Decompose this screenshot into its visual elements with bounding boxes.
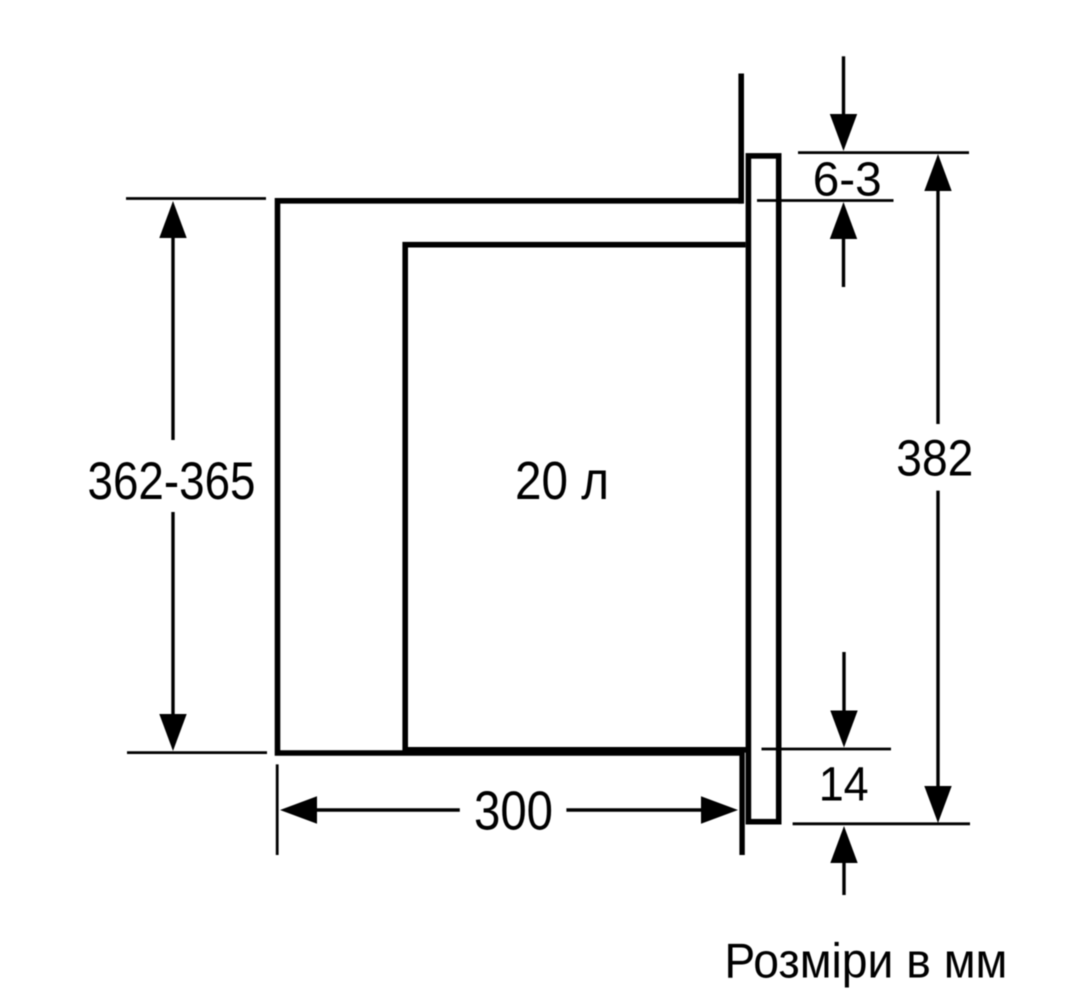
- oven cavity outline (20 l): [405, 245, 746, 750]
- dimension label 14: [819, 757, 869, 811]
- cavity volume label 20 l: [515, 451, 609, 511]
- dimension 382: bottom arrow: [924, 491, 951, 823]
- dimension 300: right arrow: [566, 796, 738, 823]
- dimension 362-365: upper arrow: [159, 201, 186, 440]
- dimension 14: down arrow: [830, 652, 857, 748]
- svg-text:300: 300: [474, 780, 553, 842]
- dimension 362-365: top extension line: [126, 197, 266, 200]
- dimension 6-3: up arrow: [830, 202, 857, 287]
- dimension 14: lower line: [793, 822, 970, 825]
- svg-text:6-3: 6-3: [813, 154, 882, 207]
- svg-text:20 л: 20 л: [515, 451, 609, 511]
- dimension label 362-365: [88, 452, 256, 511]
- dimension 300: left extension line: [276, 764, 279, 855]
- wall bottom segment: [739, 750, 744, 855]
- dimension label 6-3: [813, 154, 882, 207]
- dimension 362-365: lower arrow: [159, 512, 186, 751]
- dimension label 382: [896, 430, 973, 487]
- dimension 300: left arrow: [280, 796, 460, 823]
- oven front panel: [748, 156, 778, 822]
- dimension 14: upper line: [762, 748, 892, 751]
- svg-text:382: 382: [896, 430, 973, 487]
- dimension 6-3: down arrow: [830, 56, 857, 151]
- niche outline (362-365 opening): [278, 201, 745, 753]
- svg-text:14: 14: [819, 757, 869, 811]
- dimension label 300: [474, 780, 553, 842]
- wall top segment: [738, 74, 744, 204]
- svg-text:Розміри в мм: Розміри в мм: [724, 935, 1007, 989]
- dimension 362-365: bottom extension line: [127, 751, 267, 754]
- svg-text:362-365: 362-365: [88, 452, 256, 511]
- dimension 382: top arrow: [924, 154, 951, 424]
- dimension 6-3: lower line: [757, 199, 894, 202]
- caption: dimensions in mm: [724, 935, 1007, 989]
- dimension 14: up arrow: [830, 826, 857, 895]
- dimension 6-3: upper line: [798, 151, 969, 154]
